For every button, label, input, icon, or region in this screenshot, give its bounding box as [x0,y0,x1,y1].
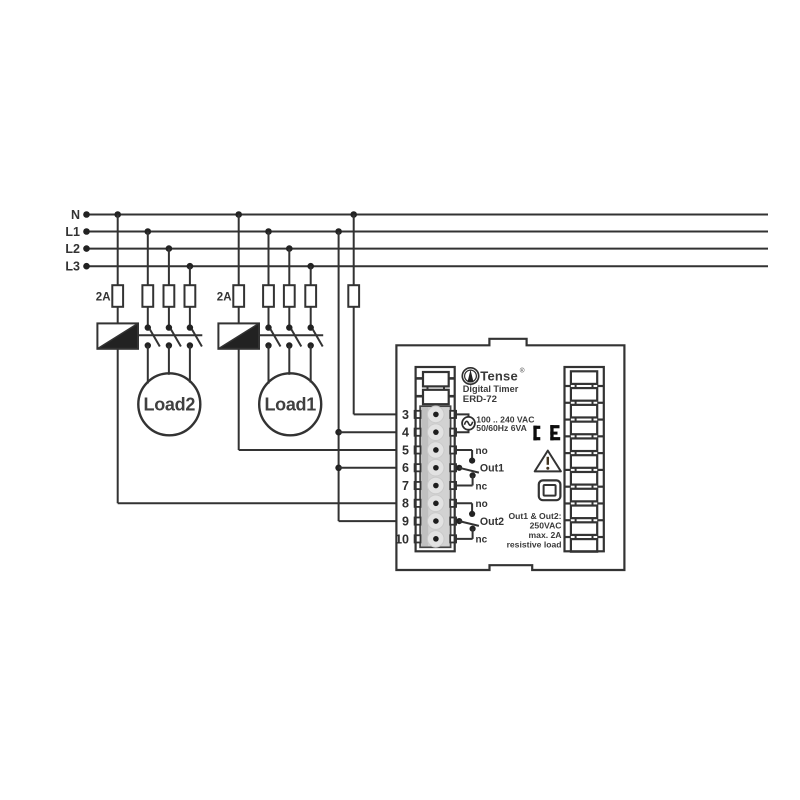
svg-text:no: no [476,499,488,510]
svg-text:9: 9 [402,514,409,528]
svg-text:ERD-72: ERD-72 [463,394,497,405]
svg-text:5: 5 [402,443,409,457]
svg-text:Out1: Out1 [480,463,504,475]
svg-text:Out2: Out2 [480,516,504,528]
svg-text:Out1 & Out2:: Out1 & Out2: [509,511,562,521]
svg-text:®: ® [520,367,525,375]
svg-text:L1: L1 [65,225,80,239]
svg-text:nc: nc [476,535,488,546]
svg-text:Load1: Load1 [264,395,316,415]
svg-text:Load2: Load2 [144,395,196,415]
svg-text:50/60Hz 6VA: 50/60Hz 6VA [476,423,526,433]
svg-text:N: N [71,208,80,222]
svg-text:L2: L2 [65,242,80,256]
svg-text:max. 2A: max. 2A [529,530,562,540]
svg-text:250VAC: 250VAC [530,521,562,531]
svg-text:Digital Timer: Digital Timer [463,384,519,394]
svg-text:2A: 2A [217,292,232,304]
svg-text:7: 7 [402,479,409,493]
svg-text:2A: 2A [96,292,111,304]
svg-text:6: 6 [402,461,409,475]
svg-text:4: 4 [402,426,409,440]
svg-text:nc: nc [476,481,488,492]
svg-text:no: no [476,446,488,457]
svg-text:10: 10 [395,532,409,546]
svg-text:8: 8 [402,497,409,511]
svg-text:3: 3 [402,408,409,422]
svg-text:L3: L3 [65,260,80,274]
svg-text:resistive load: resistive load [507,540,562,550]
svg-text:Tense: Tense [480,369,518,384]
